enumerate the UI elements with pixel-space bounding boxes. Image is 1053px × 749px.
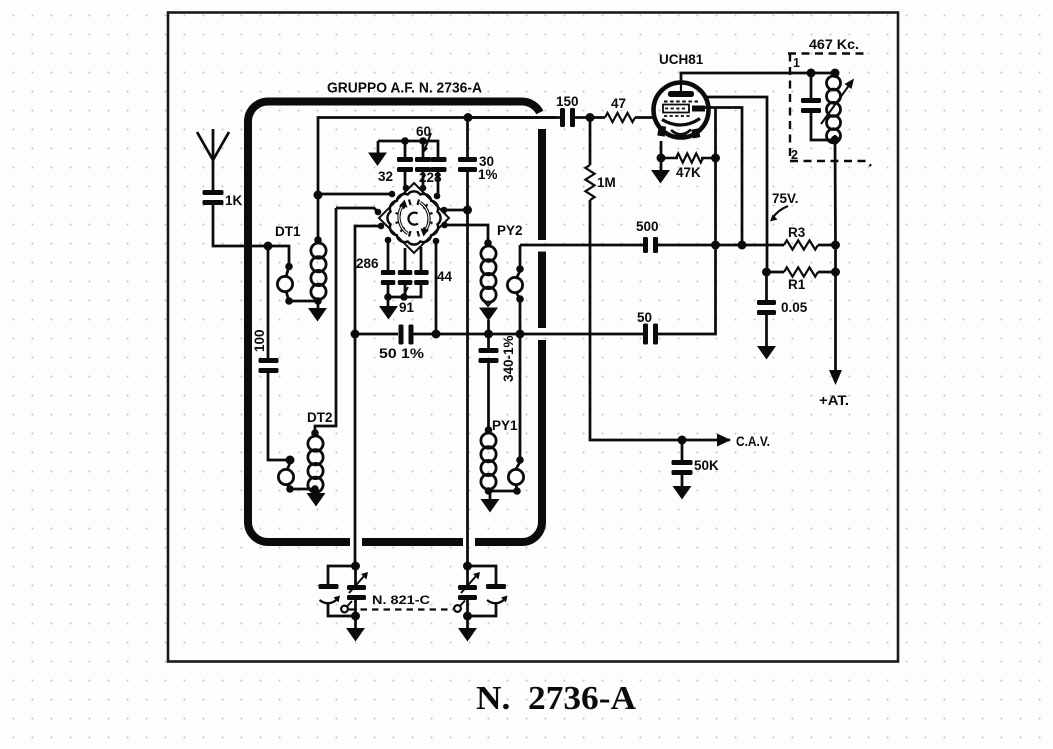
switch outer diamond wires xyxy=(379,183,449,253)
wire tube plate B xyxy=(705,108,742,246)
svg-text:1M: 1M xyxy=(597,175,616,190)
ground PY1 xyxy=(481,499,500,513)
wire switch to 30 tap xyxy=(444,209,468,212)
svg-text:1: 1 xyxy=(793,56,800,70)
node antenna junction xyxy=(264,242,273,251)
wires trimmers to switch xyxy=(404,167,407,188)
svg-text:+AT.: +AT. xyxy=(819,393,849,408)
capacitor 500 xyxy=(643,237,648,253)
wire 50 to riser xyxy=(658,245,716,334)
node PY1 bottom xyxy=(485,487,493,495)
tube pin stubs xyxy=(657,126,666,137)
node R1 right xyxy=(831,268,840,277)
node riser A xyxy=(711,241,720,250)
gang coupling left xyxy=(341,606,348,613)
capacitor 91 (trimmer) xyxy=(404,248,407,270)
wire 500 to R3 xyxy=(658,244,785,247)
gang dashed link xyxy=(349,608,453,610)
gang coupling right xyxy=(454,605,461,612)
wire antenna to node xyxy=(213,205,268,246)
node PY1 top xyxy=(485,426,493,434)
ground DT2 xyxy=(307,493,326,507)
capacitor 228 xyxy=(431,157,447,162)
tube grids xyxy=(664,101,698,103)
svg-text:100: 100 xyxy=(252,329,267,352)
svg-text:150: 150 xyxy=(556,94,579,109)
wire padder commons xyxy=(388,280,421,297)
svg-text:N. 821-C: N. 821-C xyxy=(372,593,430,607)
ground gang right xyxy=(466,616,469,629)
node IF pin1 cap xyxy=(807,69,816,78)
node PY2 top xyxy=(484,239,492,247)
coil DT2 primary xyxy=(286,456,294,464)
node gang right bottom xyxy=(463,612,472,621)
node gang right top xyxy=(463,562,472,571)
capacitor 50 1% xyxy=(399,325,404,345)
variable capacitor gang right xyxy=(466,566,469,585)
resistor R3 xyxy=(784,240,818,249)
node IF pin1 coil xyxy=(831,69,840,78)
arrow 75V xyxy=(773,206,789,218)
svg-text:32: 32 xyxy=(378,169,393,184)
capacitor 340 1% xyxy=(487,334,490,348)
wire node to 100 xyxy=(267,246,270,358)
capacitor 32 xyxy=(404,141,407,158)
switch contacts xyxy=(403,185,410,192)
wire DT1 bottom xyxy=(289,301,318,308)
capacitor 150 xyxy=(560,108,565,127)
ground padders xyxy=(387,297,390,307)
capacitor 100 xyxy=(259,358,279,363)
node CAV tap xyxy=(678,436,687,445)
svg-text:50 1%: 50 1% xyxy=(379,346,424,361)
tube grid 3 xyxy=(664,115,690,117)
ground DT1 xyxy=(308,308,327,322)
node DT2 primary top xyxy=(286,456,295,465)
coupling riser PY2/PY1 xyxy=(519,245,522,269)
wire switch down to bus xyxy=(435,241,438,334)
svg-text:91: 91 xyxy=(399,300,415,315)
capacitor 286 xyxy=(387,240,390,270)
svg-text:1K: 1K xyxy=(225,193,243,208)
variable capacitor gang left xyxy=(354,566,357,585)
svg-text:44: 44 xyxy=(437,269,453,284)
ground trimmer bus xyxy=(368,153,387,167)
border frame xyxy=(168,13,898,662)
node R3 right xyxy=(831,241,840,250)
node DT1 secondary top xyxy=(314,236,322,244)
capacitor 0.05 xyxy=(765,272,768,300)
wire oscillator bus xyxy=(355,333,398,336)
resistor 47K xyxy=(661,157,716,159)
wire switch to DT2 xyxy=(336,208,378,212)
wire tube plate A xyxy=(705,97,767,245)
node R1 left xyxy=(762,268,771,277)
wire PY1 bottom xyxy=(489,490,518,493)
arrow PY2 core xyxy=(483,300,493,306)
capacitor 1K xyxy=(203,190,224,195)
resistor R1 xyxy=(767,271,785,274)
coil PY2 xyxy=(481,246,496,261)
wire 340 to PY1 xyxy=(487,363,490,430)
svg-text:R1: R1 xyxy=(788,277,806,292)
shield box GRUPPO A.F. N. 2736-A xyxy=(248,102,542,543)
node 340 bus xyxy=(484,330,493,339)
wire tube cathode down xyxy=(660,141,663,158)
capacitor 50 xyxy=(643,324,648,345)
node 1M top xyxy=(586,113,595,122)
coil DT1 secondary xyxy=(311,243,326,258)
svg-text:340-1%: 340-1% xyxy=(501,335,516,382)
ground cathode xyxy=(660,158,663,171)
wire osc to gang xyxy=(354,334,357,566)
capacitor 50K xyxy=(681,440,684,460)
coil PY1 coupling xyxy=(516,456,524,464)
wire 47 to tube xyxy=(635,116,654,119)
svg-text:2: 2 xyxy=(791,148,798,162)
wire grid bus xyxy=(318,116,556,119)
node osc left xyxy=(351,330,360,339)
node riser B xyxy=(738,241,747,250)
trimmer gang left xyxy=(328,566,356,585)
svg-text:PY1: PY1 xyxy=(492,418,518,433)
wire node to DT1 primary xyxy=(268,246,289,263)
wire tube top to IF xyxy=(681,73,835,83)
capacitor 30 1% xyxy=(466,118,469,159)
tube cathode xyxy=(662,119,700,126)
node DT1 secondary bottom xyxy=(314,297,322,305)
node DT2 secondary top xyxy=(311,429,319,437)
wire 91 to common xyxy=(404,280,407,297)
svg-text:N. 2736-A: N. 2736-A xyxy=(476,680,636,717)
svg-text:1%: 1% xyxy=(478,167,498,182)
svg-text:UCH81: UCH81 xyxy=(659,52,704,67)
svg-text:467 Kc.: 467 Kc. xyxy=(809,37,859,52)
wire switch to osc line xyxy=(355,226,381,334)
svg-text:DT2: DT2 xyxy=(307,410,333,425)
switch rotor arrows xyxy=(399,206,408,233)
wire 1M down to CAV xyxy=(590,200,730,440)
wire ant to gang xyxy=(466,334,469,566)
node 30 tap xyxy=(463,206,472,215)
IF coil xyxy=(827,76,841,90)
node 30 top xyxy=(464,113,473,122)
coil PY1 xyxy=(481,433,496,448)
ground gang left xyxy=(354,616,357,629)
wire bus xyxy=(414,333,644,336)
arrow C.A.V. xyxy=(717,434,731,447)
svg-text:GRUPPO A.F. N. 2736-A: GRUPPO A.F. N. 2736-A xyxy=(327,80,482,97)
node DT2 bottom xyxy=(286,485,294,493)
wire IF bus y245 xyxy=(520,244,643,247)
wire IF to AT xyxy=(834,140,837,245)
wire DT1 secondary top xyxy=(317,118,320,240)
wire 75V riser to R1 xyxy=(766,245,769,272)
antenna xyxy=(212,158,215,190)
wire trimmer top bus xyxy=(378,141,438,158)
IF coil tuning arrow xyxy=(821,84,850,124)
svg-text:50K: 50K xyxy=(694,458,719,473)
ground 0.05 xyxy=(757,346,776,360)
node gang left top xyxy=(351,562,360,571)
resistor 47 xyxy=(605,113,635,122)
resistor 1M xyxy=(589,118,592,166)
wire 150 to 47 xyxy=(575,116,606,119)
svg-text:75V.: 75V. xyxy=(772,191,799,206)
svg-text:50: 50 xyxy=(637,310,652,325)
ground 50K xyxy=(673,486,692,500)
node PY coupling bus xyxy=(516,330,525,339)
svg-text:286: 286 xyxy=(356,256,379,271)
capacitor 44 xyxy=(420,247,423,270)
tube heater xyxy=(671,130,691,135)
svg-text:PY2: PY2 xyxy=(497,223,523,238)
wire tube triode down xyxy=(714,108,717,246)
capacitor 60 (trimmer) xyxy=(422,141,425,158)
node DT1 primary bottom xyxy=(285,297,293,305)
wire DT2 bottom xyxy=(290,489,316,494)
svg-text:R3: R3 xyxy=(788,225,806,240)
wire 100 to DT2 primary xyxy=(268,373,290,460)
svg-text:47K: 47K xyxy=(676,165,701,180)
svg-text:500: 500 xyxy=(636,219,659,234)
svg-text:47: 47 xyxy=(611,96,626,111)
wire switch to DT2 xyxy=(315,208,336,433)
node 44 bus xyxy=(432,330,441,339)
wire AT down xyxy=(834,245,837,371)
arrow +AT xyxy=(829,370,842,385)
node 32 top xyxy=(401,137,409,145)
node IF bottom xyxy=(831,136,840,145)
coil DT2 secondary xyxy=(308,436,323,451)
tube triode anode xyxy=(692,106,705,112)
wire switch to DT1 tap xyxy=(318,193,392,196)
wire bus through box xyxy=(468,116,561,119)
svg-text:C.A.V.: C.A.V. xyxy=(736,434,770,449)
wire switch to PY2 xyxy=(445,225,489,243)
coil DT1 primary xyxy=(285,263,293,271)
rotary wafer switch S1 xyxy=(387,191,440,244)
node DT1 top tap xyxy=(314,191,323,200)
node gang left bottom xyxy=(351,612,360,621)
tube anode xyxy=(668,91,694,97)
node 60 top xyxy=(419,137,427,145)
svg-text:0.05: 0.05 xyxy=(781,300,808,315)
ground PY2 xyxy=(479,308,498,322)
trimmer gang right xyxy=(468,566,497,585)
IF capacitor xyxy=(810,73,813,98)
svg-text:DT1: DT1 xyxy=(275,224,301,239)
